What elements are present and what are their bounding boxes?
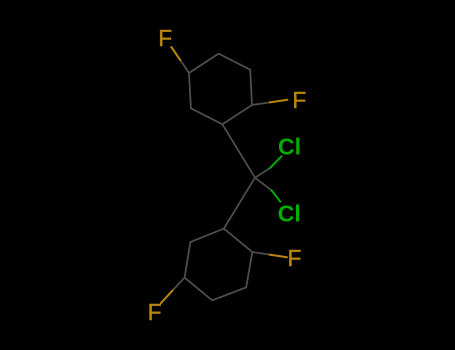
svg-text:F: F — [148, 299, 162, 325]
svg-text:F: F — [292, 87, 306, 113]
svg-text:F: F — [158, 25, 172, 51]
svg-text:Cl: Cl — [278, 133, 301, 159]
svg-text:Cl: Cl — [278, 201, 301, 227]
svg-text:F: F — [288, 245, 302, 271]
